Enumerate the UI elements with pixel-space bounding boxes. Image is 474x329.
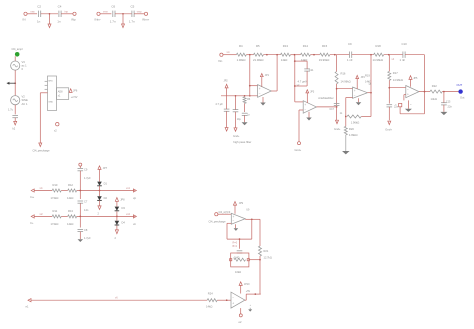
svg-text:R=0: R=0 <box>233 241 238 244</box>
svg-text:14.96kΩ: 14.96kΩ <box>373 58 384 62</box>
capacitor C5 <box>129 5 135 24</box>
svg-text:Out: Out <box>460 96 465 100</box>
wire C1 to ground <box>14 118 16 122</box>
svg-text:1 nF: 1 nF <box>347 58 353 62</box>
svg-text:+: + <box>407 92 409 96</box>
ground op-amp U3 <box>356 98 362 105</box>
node U8 bottom terminal <box>239 314 242 317</box>
junction row1 diode <box>99 190 101 192</box>
wire U8 fb drop <box>245 294 246 300</box>
svg-text:1.7µF: 1.7µF <box>84 176 91 180</box>
capacitor C4 <box>57 5 62 24</box>
wire s3 minus stub <box>337 88 353 90</box>
svg-text:high pass filter: high pass filter <box>233 140 251 144</box>
svg-text:R11: R11 <box>53 209 58 213</box>
wire s2 plus stub <box>299 110 303 142</box>
node INm terminal <box>71 12 76 21</box>
svg-text:Cl4_precharge: Cl4_precharge <box>33 149 51 153</box>
wire s3 gnd gray <box>345 135 347 151</box>
svg-text:vn: vn <box>133 222 137 226</box>
svg-text:−: − <box>354 93 356 97</box>
svg-text:IN: IN <box>23 17 26 21</box>
svg-text:vmp: vmp <box>137 11 142 14</box>
resistor R15 <box>319 44 330 62</box>
diode D3 <box>115 206 126 211</box>
wire s2 cap branch bottom <box>294 71 307 87</box>
svg-text:14kΩ: 14kΩ <box>281 58 288 62</box>
svg-text:INm-: INm- <box>95 17 102 21</box>
node Gnd+ terminal s2 plus <box>295 142 302 152</box>
wire s23 column top <box>336 55 338 72</box>
node precharge terminal <box>39 143 42 147</box>
wire Vin to R4 <box>223 54 236 56</box>
diode D1 <box>97 182 107 186</box>
svg-text:C15: C15 <box>446 101 451 104</box>
svg-text:Vin: Vin <box>218 59 223 63</box>
wire D3 to D4 <box>116 211 118 220</box>
wire top stub <box>79 166 81 168</box>
svg-text:R19: R19 <box>365 74 370 78</box>
wire s3 lower feedback <box>361 116 371 118</box>
svg-text:AD8: AD8 <box>58 90 63 93</box>
svg-text:AC 1: AC 1 <box>22 102 28 106</box>
svg-text:JP5: JP5 <box>413 77 418 80</box>
svg-text:INm+: INm+ <box>142 17 149 21</box>
capacitor C8b <box>78 228 92 240</box>
node RC block pads <box>230 259 250 261</box>
resistor R25 in block <box>233 256 246 261</box>
wire JP9 to U7 <box>234 205 236 214</box>
svg-text:C8: C8 <box>84 228 88 232</box>
svg-text:Cl4_precharge: Cl4_precharge <box>209 219 227 223</box>
wire right column lower <box>259 256 261 294</box>
node JP terminal at U4 <box>69 89 78 93</box>
wire s23 column bottom <box>336 107 338 120</box>
node JP10 power terminal <box>239 282 250 286</box>
capacitor C11 <box>298 61 315 83</box>
wire s4 fb loop <box>400 92 424 114</box>
resistor R20 <box>344 126 357 136</box>
resistor R24 <box>206 292 217 309</box>
node JP4 power terminal <box>356 75 366 89</box>
svg-text:1.96kΩ: 1.96kΩ <box>351 121 360 125</box>
ground cap column gray <box>78 239 84 242</box>
net label vi2 <box>40 213 44 216</box>
ground GND6 gray <box>342 151 350 154</box>
svg-text:GND: GND <box>48 102 53 104</box>
capacitor C15 <box>441 92 452 109</box>
resistor R22 <box>430 84 442 101</box>
svg-text:+: + <box>232 302 234 306</box>
wire s1 feedback vertical <box>276 55 278 91</box>
wire s1 output <box>271 90 277 92</box>
svg-text:C17: C17 <box>330 108 335 111</box>
wire V2 to C1 <box>14 105 16 115</box>
svg-text:C11: C11 <box>309 69 314 72</box>
wire out <box>442 91 458 93</box>
node D power terminal 1 <box>98 166 108 170</box>
svg-text:vo1: vo1 <box>126 187 131 190</box>
wire U8 fb jog <box>246 293 261 295</box>
node precharge in terminal <box>215 213 218 216</box>
wire C6 to C5 <box>115 13 132 15</box>
text 10k below block <box>235 270 241 274</box>
wire s4 plus stub <box>404 95 406 101</box>
svg-text:JP1: JP1 <box>265 74 270 77</box>
wire right column upper <box>259 219 261 246</box>
wire C5 to INm+ <box>134 13 144 15</box>
net label U8 bottom <box>239 320 242 324</box>
wire U7 output <box>245 218 260 220</box>
wire JP10 to U8 <box>240 285 242 293</box>
svg-text:R15: R15 <box>322 44 328 48</box>
wire s3 right bottom <box>388 107 390 120</box>
voltage source V1 <box>11 60 27 71</box>
resistor R14 <box>301 44 311 62</box>
net label Out <box>460 96 465 100</box>
net label Cl4_precharge <box>33 149 51 153</box>
svg-text:C7: C7 <box>84 200 88 204</box>
junction row2 center <box>79 216 81 218</box>
net label n001 <box>31 11 35 14</box>
node INm- terminal <box>95 12 102 21</box>
svg-text:JP6: JP6 <box>73 90 78 93</box>
junction node mid1 <box>49 13 51 15</box>
resistor R11 <box>51 209 62 226</box>
svg-text:R21: R21 <box>264 249 269 253</box>
op-amp U4 inner block <box>57 88 69 100</box>
node Gnd+ terminal colM <box>233 128 240 138</box>
svg-text:Cl4_ampl: Cl4_ampl <box>12 47 23 51</box>
svg-text:C10: C10 <box>402 42 408 46</box>
wire C10m down <box>235 112 237 128</box>
svg-text:vmn: vmn <box>103 11 108 14</box>
ground GND7 gray <box>440 112 447 115</box>
ground GND3 <box>13 121 17 130</box>
ground GND2 <box>122 24 125 28</box>
svg-text:D3: D3 <box>122 206 126 210</box>
node IN terminal <box>23 12 28 21</box>
wire R6 to C8 <box>244 103 246 112</box>
svg-text:V3: V3 <box>22 60 26 64</box>
node down terminal d2 <box>115 230 119 240</box>
wire s1 plus rail <box>221 95 258 97</box>
svg-text:In+: In+ <box>30 195 35 199</box>
op-amp U3 block outline <box>45 76 57 111</box>
node JP2 terminal <box>224 80 229 96</box>
svg-text:In-: In- <box>30 221 34 225</box>
svg-text:JP7: JP7 <box>103 167 108 170</box>
capacitor C16 <box>237 251 243 253</box>
net label vi1 <box>40 187 44 190</box>
node JP1 power terminal <box>260 74 269 87</box>
svg-text:14kΩ: 14kΩ <box>67 222 73 226</box>
wire C14 to corner <box>405 54 424 56</box>
wire C12 to R18 <box>352 54 374 56</box>
op-amp U2 <box>303 101 316 114</box>
junction row1 center <box>79 190 81 192</box>
wire fb to RC block <box>239 239 241 249</box>
svg-text:D2: D2 <box>104 196 108 200</box>
svg-text:JP9: JP9 <box>239 202 244 205</box>
svg-text:R4: R4 <box>239 44 243 48</box>
op-amp U1 <box>258 85 272 98</box>
wire U7 minus left <box>227 222 231 224</box>
wire U7 fb box right <box>251 219 253 239</box>
op-amp U8 <box>231 292 245 308</box>
net label Cl4_amplitude <box>12 47 23 51</box>
svg-text:vo2: vo2 <box>126 213 131 216</box>
wire into box <box>40 92 47 94</box>
wire s3 output vertical <box>370 55 372 117</box>
node e terminal <box>26 299 32 309</box>
svg-text:22n: 22n <box>448 104 453 108</box>
node Gnd+ terminal colA <box>225 128 228 132</box>
junction node vsrc <box>14 82 16 84</box>
svg-text:INp: INp <box>71 17 76 21</box>
node left arrow terminal <box>7 82 15 85</box>
junction row2 diode <box>116 216 118 218</box>
svg-text:R16: R16 <box>341 72 346 76</box>
node JP9 power terminal <box>233 202 243 206</box>
resistor R12 <box>67 183 77 200</box>
wire s4 minus stub <box>389 87 406 89</box>
wire s4 output <box>419 91 430 93</box>
junction node s2mid <box>313 54 315 56</box>
wire R24 to U8 <box>217 299 231 301</box>
wire C4 to INm <box>61 13 73 15</box>
svg-text:C2: C2 <box>37 5 41 9</box>
svg-text:ac 1: ac 1 <box>22 64 28 68</box>
svg-text:1n: 1n <box>37 20 41 24</box>
net label vin1 <box>227 51 231 54</box>
svg-text:R14: R14 <box>303 44 309 48</box>
svg-text:B=2: B=2 <box>233 245 238 248</box>
svg-text:1.7n: 1.7n <box>110 20 116 24</box>
wire U7 fb box bottom <box>227 238 252 240</box>
wire D1 to D2 <box>99 186 101 196</box>
svg-text:4.7 µeV: 4.7 µeV <box>298 79 308 83</box>
RC block box <box>231 253 249 267</box>
svg-text:−: − <box>407 88 409 92</box>
resistor R13 <box>281 44 291 62</box>
wire s2 output <box>316 106 337 108</box>
resistor R6 blob <box>243 97 251 104</box>
resistor R4 <box>236 44 246 62</box>
text AntiAliasFilter <box>318 97 333 100</box>
label s3 JP net <box>365 74 371 84</box>
svg-text:14kΩ: 14kΩ <box>67 196 73 200</box>
svg-text:4.99kΩ: 4.99kΩ <box>349 133 358 137</box>
net label s3 out <box>369 84 372 86</box>
wire s3 right mid <box>388 80 390 103</box>
svg-text:10kΩ: 10kΩ <box>235 270 241 274</box>
wire R10 R12 <box>61 190 67 192</box>
svg-text:R13: R13 <box>68 209 73 213</box>
node vn terminal <box>133 215 137 226</box>
junction node s1a <box>249 54 251 56</box>
resistor R5 <box>253 44 264 62</box>
text high pass filter <box>233 140 251 144</box>
svg-text:JP4: JP4 <box>361 76 366 79</box>
resistor R21v <box>259 246 272 260</box>
wire s2 input vertical <box>294 55 296 102</box>
ground GND1 <box>48 24 51 28</box>
junction node s3out <box>370 54 372 56</box>
svg-text:AntiAliasFilter: AntiAliasFilter <box>318 97 333 100</box>
svg-text:4.7 µF: 4.7 µF <box>215 102 223 106</box>
net label n003 <box>103 11 108 14</box>
svg-text:19.96kΩ: 19.96kΩ <box>319 58 330 62</box>
wire R14 to R15 <box>310 54 319 56</box>
net label vlong <box>115 296 118 299</box>
wire In+ to R10 <box>34 190 52 192</box>
svg-text:1.7u: 1.7u <box>8 107 14 111</box>
junction node s2in <box>294 54 296 56</box>
wire R15 to C12 <box>330 54 350 56</box>
node down terminal d1 <box>98 206 102 216</box>
node Gnd+ arrow s3 <box>385 121 392 132</box>
svg-text:C5: C5 <box>131 5 135 9</box>
svg-text:R20: R20 <box>349 127 354 131</box>
net label OUT blue <box>457 83 463 87</box>
node OUT blue marker <box>458 89 462 93</box>
svg-text:C9: C9 <box>348 42 352 46</box>
capacitor C7b <box>78 200 89 212</box>
op-amp U6 <box>406 86 419 98</box>
node D power terminal 2 <box>115 198 125 202</box>
svg-text:V2: V2 <box>22 95 26 99</box>
svg-text:1.7µF: 1.7µF <box>84 236 91 240</box>
wire s2 minus corner <box>295 101 303 103</box>
wire D2 down <box>99 200 101 206</box>
ground op-amp U2 <box>306 112 312 121</box>
capacitor C12 <box>347 42 353 62</box>
wire s3 plus vertical <box>345 98 353 127</box>
wire mid1 to ground <box>49 14 51 24</box>
wire s1 input vertical <box>249 55 251 97</box>
svg-text:14kΩ: 14kΩ <box>431 97 437 101</box>
resistor R0 square <box>395 103 402 106</box>
svg-text:C6: C6 <box>111 5 115 9</box>
svg-text:R18: R18 <box>376 44 382 48</box>
net label precharge eq <box>219 211 231 214</box>
svg-text:vp: vp <box>133 196 137 200</box>
svg-text:D1: D1 <box>104 182 108 186</box>
net label v4 <box>392 58 395 61</box>
wire R4 to R5 <box>246 54 253 56</box>
voltage source V2 <box>8 95 28 112</box>
capacitor C1 <box>12 116 18 118</box>
svg-text:R22: R22 <box>432 84 437 88</box>
svg-text:C9: C9 <box>84 168 88 172</box>
junction node s4in <box>388 54 390 56</box>
net label vo1 <box>126 187 131 190</box>
text Cl4_precharge 2 <box>209 219 227 223</box>
svg-text:raw: raw <box>31 11 35 14</box>
svg-text:1n: 1n <box>57 20 61 24</box>
resistor R17 <box>388 71 403 82</box>
svg-text:174kΩ: 174kΩ <box>51 196 59 200</box>
net label U9 <box>246 208 250 211</box>
capacitor C13 <box>387 105 399 109</box>
svg-text:+: + <box>259 87 261 91</box>
wire mid2 to ground <box>122 14 124 24</box>
wire row1 right <box>77 190 135 192</box>
wire RC block right <box>249 259 260 261</box>
wire IN to C2 <box>27 13 37 15</box>
wire C7 down <box>226 111 228 127</box>
diode D2 <box>97 196 107 201</box>
capacitor C8 <box>242 113 251 116</box>
resistor R16 <box>335 72 350 84</box>
wire C7b to C8b <box>79 203 81 227</box>
node x2 terminal <box>54 123 59 133</box>
wire C15 gnd <box>443 105 445 112</box>
svg-text:12.7kΩ: 12.7kΩ <box>264 256 272 260</box>
svg-text:14.96kΩ: 14.96kΩ <box>393 78 403 82</box>
wire U7 fb box left <box>226 223 228 239</box>
node In+ terminal <box>30 189 35 199</box>
svg-text:14n: 14n <box>84 208 89 212</box>
wire INm- to C6 <box>100 13 111 15</box>
wire C2 to C4 <box>41 13 58 15</box>
svg-text:1.96kΩ: 1.96kΩ <box>237 58 246 62</box>
svg-text:Gnd+: Gnd+ <box>295 148 302 152</box>
svg-text:1 nF: 1 nF <box>400 58 406 62</box>
svg-text:−: − <box>259 92 261 96</box>
svg-text:JP10: JP10 <box>244 283 250 286</box>
node JP3 power terminal <box>306 90 315 103</box>
svg-text:−: − <box>233 219 235 223</box>
svg-text:+2.5V: +2.5V <box>71 96 78 99</box>
svg-text:+: + <box>304 103 306 107</box>
svg-text:14kΩ: 14kΩ <box>365 79 371 83</box>
capacitor C6 <box>110 5 116 24</box>
svg-text:174kΩ: 174kΩ <box>51 222 59 226</box>
svg-text:C4: C4 <box>58 5 62 9</box>
wire row2 right <box>77 215 135 217</box>
op-amp U7 <box>231 213 245 224</box>
node vp terminal <box>133 189 137 200</box>
ground op-amp U6 <box>405 100 412 112</box>
wire to D3 <box>116 201 118 206</box>
svg-text:14kΩ: 14kΩ <box>206 305 212 309</box>
node Gnd+ arrow s23 <box>334 120 341 131</box>
svg-text:JP3: JP3 <box>310 90 315 93</box>
svg-text:+5V: +5V <box>246 290 251 293</box>
wire R11 R13b <box>61 215 67 217</box>
ground op-amp U7 <box>234 224 239 231</box>
svg-text:10µ: 10µ <box>237 118 242 121</box>
ground U8 out <box>248 304 252 311</box>
junction node s1b <box>266 54 268 56</box>
svg-text:−: − <box>304 108 306 112</box>
net label vo2 <box>126 213 131 216</box>
svg-text:R12: R12 <box>68 183 73 187</box>
svg-text:14.96kΩ: 14.96kΩ <box>341 79 351 83</box>
op-amp U5 <box>353 87 368 98</box>
wire C9 to C7b <box>79 171 81 199</box>
wire s3 right column <box>388 55 390 72</box>
svg-text:+: + <box>354 89 356 93</box>
node cap column top terminal <box>79 163 82 166</box>
capacitor C9 <box>78 168 92 180</box>
svg-text:R17: R17 <box>393 71 398 75</box>
net label +2.5V <box>71 96 78 99</box>
text R=0 B=2 <box>233 241 238 248</box>
wire s2 cap branch top <box>294 60 307 62</box>
